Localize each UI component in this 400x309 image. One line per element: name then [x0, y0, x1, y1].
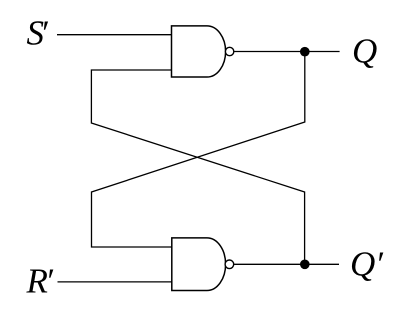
wire S' input to gate U1	[57, 34, 172, 36]
NAND gate U2 bubble	[225, 260, 234, 269]
wire U1 output to Q	[234, 51, 340, 53]
NAND gate U1 body	[172, 26, 226, 77]
svg-text:Q′: Q′	[350, 245, 384, 284]
svg-text:Q: Q	[352, 31, 377, 70]
junction node Q'	[300, 260, 310, 270]
NAND gate U1 bubble	[225, 47, 233, 55]
wire feedback Q to U2 upper input	[92, 52, 305, 248]
wire feedback Q' to U1 lower input	[91, 70, 304, 264]
NAND gate U2 body	[172, 238, 226, 291]
wire U2 output to Q'	[234, 263, 339, 265]
svg-text:R′: R′	[26, 262, 55, 301]
svg-text:S′: S′	[27, 14, 50, 53]
wire R' input to gate U2	[58, 281, 172, 283]
junction node Q	[300, 47, 310, 57]
